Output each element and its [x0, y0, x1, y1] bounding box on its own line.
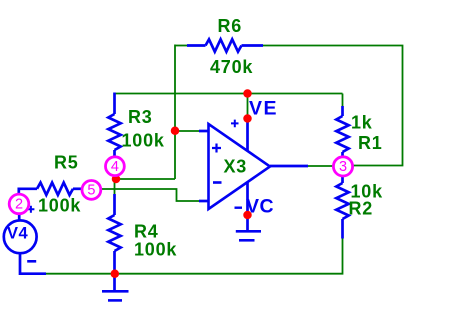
svg-text:VE: VE [249, 98, 278, 120]
svg-text:R3: R3 [128, 107, 153, 127]
svg-text:V4: V4 [7, 225, 29, 243]
svg-text:100k: 100k [134, 240, 177, 260]
svg-text:5: 5 [87, 183, 95, 199]
svg-text:X3: X3 [224, 157, 248, 177]
svg-text:100k: 100k [38, 196, 81, 216]
svg-text:470k: 470k [210, 57, 253, 77]
svg-text:R5: R5 [54, 153, 79, 173]
svg-text:R4: R4 [134, 222, 159, 242]
svg-text:R6: R6 [218, 16, 243, 36]
svg-text:R2: R2 [349, 199, 374, 219]
svg-text:VC: VC [246, 196, 274, 218]
svg-text:R1: R1 [358, 133, 383, 153]
svg-text:2: 2 [15, 197, 23, 213]
svg-text:1k: 1k [351, 113, 373, 133]
svg-text:4: 4 [111, 159, 119, 175]
svg-text:100k: 100k [122, 131, 165, 151]
svg-text:3: 3 [339, 159, 347, 175]
